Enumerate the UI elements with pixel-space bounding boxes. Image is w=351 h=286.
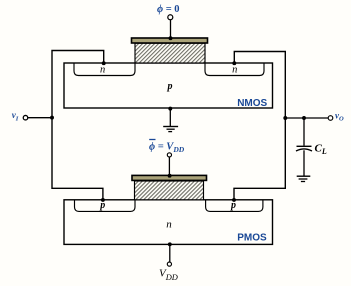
svg-text:p: p	[230, 200, 236, 211]
svg-text:PMOS: PMOS	[237, 233, 267, 244]
svg-text:NMOS: NMOS	[237, 98, 267, 109]
svg-text:n: n	[232, 64, 237, 75]
svg-text:n: n	[100, 64, 105, 75]
svg-text:p: p	[167, 81, 173, 92]
svg-text:ϕ = 0: ϕ = 0	[157, 4, 180, 15]
svg-text:n: n	[166, 218, 172, 230]
